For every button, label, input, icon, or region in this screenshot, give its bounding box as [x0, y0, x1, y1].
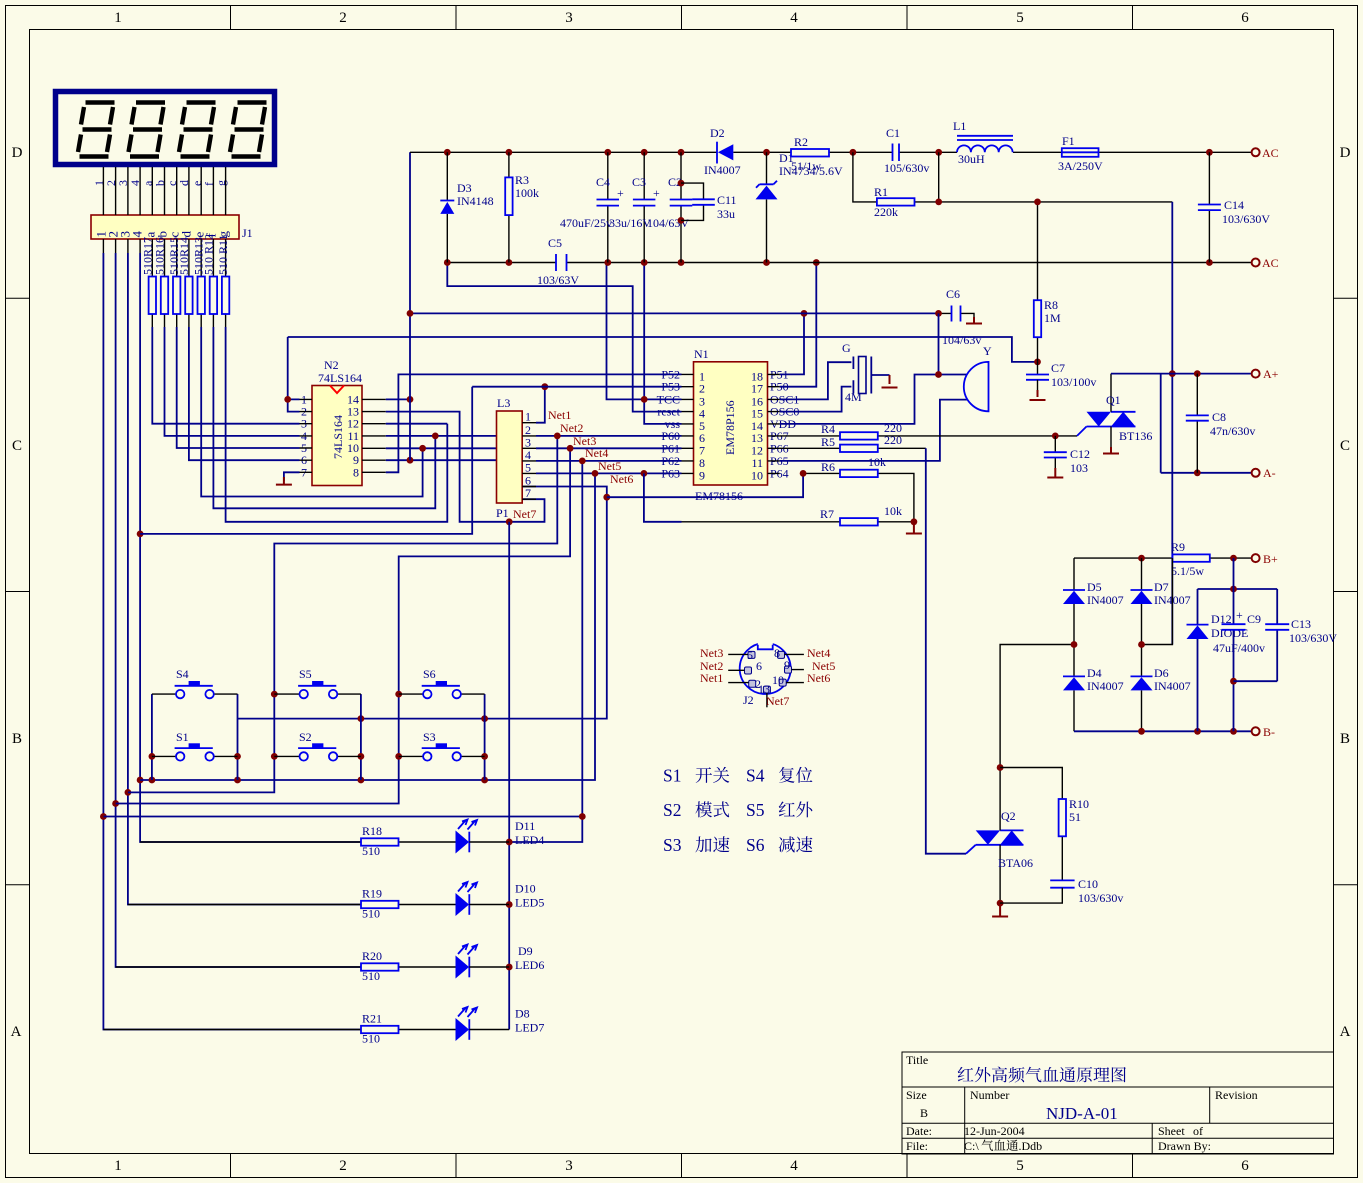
- switch S6: [399, 667, 485, 698]
- svg-text:D8: D8: [515, 1007, 530, 1021]
- svg-text:103/630V: 103/630V: [1289, 631, 1337, 645]
- wire L3 pin1 Net1 riser to P53 row: [536, 383, 548, 422]
- svg-text:C7: C7: [1051, 361, 1065, 375]
- buzzer Y: [964, 344, 992, 411]
- wire S5 S2 right column: [358, 694, 365, 780]
- resistor R3 100k: [505, 152, 539, 262]
- wire Q1 to A- row: [1161, 374, 1252, 477]
- svg-text:51/1w: 51/1w: [791, 159, 821, 173]
- resistor R9 5.1/5w: [1171, 540, 1210, 578]
- resistor R20 510: [116, 949, 456, 983]
- resistor R6 10k: [800, 455, 914, 522]
- wire rail1 left riser and C6 line: [407, 152, 942, 460]
- svg-text:B-: B-: [1263, 725, 1275, 739]
- 7-segment display DS1: [56, 92, 275, 165]
- svg-text:C8: C8: [1212, 410, 1226, 424]
- ground at R7: [906, 522, 922, 534]
- capacitor C14 103/630V: [1198, 152, 1270, 262]
- capacitor C4 470uF/25v: [560, 152, 624, 262]
- ground at N2 pin7: [276, 472, 300, 484]
- node Net4 at J2: [807, 646, 830, 660]
- resistor R18 510: [140, 824, 455, 858]
- svg-text:C:\: C:\: [964, 1139, 979, 1153]
- svg-text:1: 1: [525, 410, 531, 424]
- wire S4 S1 left column: [149, 694, 156, 780]
- svg-text:AC: AC: [1262, 146, 1279, 160]
- resistor R17 510: [141, 237, 157, 314]
- svg-text:IN4007: IN4007: [1154, 679, 1191, 693]
- wire bridge top row R9: [1074, 555, 1251, 562]
- svg-text:D9: D9: [518, 944, 533, 958]
- svg-text:R5: R5: [821, 435, 835, 449]
- svg-text:B+: B+: [1263, 552, 1278, 566]
- svg-text:D7: D7: [1154, 580, 1169, 594]
- svg-text:S6: S6: [746, 835, 765, 855]
- wire C6 to buzzer top and VDD: [780, 313, 967, 424]
- svg-text:R6: R6: [821, 460, 835, 474]
- node Net7 at J2: [766, 694, 789, 708]
- svg-text:of: of: [1193, 1124, 1203, 1138]
- svg-text:6: 6: [756, 659, 762, 673]
- svg-text:S4: S4: [176, 667, 189, 681]
- wire segment e bus to N2 pin10: [201, 327, 422, 497]
- svg-text:B: B: [1340, 731, 1350, 747]
- svg-text:470uF/25v: 470uF/25v: [560, 216, 612, 230]
- svg-text:100k: 100k: [515, 186, 539, 200]
- svg-text:7: 7: [525, 486, 531, 500]
- svg-text:Sheet: Sheet: [1158, 1124, 1185, 1138]
- svg-text:Size: Size: [906, 1088, 927, 1102]
- svg-text:R3: R3: [515, 173, 529, 187]
- svg-text:BTA06: BTA06: [998, 856, 1033, 870]
- wire bridge right mid to R9 riser: [1138, 558, 1172, 648]
- capacitor C3 33u/16V: [609, 152, 660, 262]
- node Net6 at J2: [807, 671, 830, 685]
- svg-text:G: G: [842, 341, 851, 355]
- svg-text:R7: R7: [820, 507, 834, 521]
- svg-text:N2: N2: [324, 358, 339, 372]
- svg-text:+: +: [1236, 608, 1243, 622]
- wire OSC0 to crystal: [780, 387, 852, 412]
- svg-text:30uH: 30uH: [958, 152, 985, 166]
- diode D7 IN4007: [1131, 558, 1191, 644]
- resistor R5 220: [780, 433, 926, 452]
- diode D6 IN4007: [1131, 645, 1191, 732]
- node Net3: [573, 434, 596, 448]
- svg-text:R19: R19: [362, 887, 382, 901]
- svg-text:51: 51: [1069, 810, 1081, 824]
- ground at Q2: [992, 903, 1008, 916]
- svg-text:S4: S4: [746, 766, 765, 786]
- wire segment f bus to N2 pin11: [213, 327, 435, 508]
- capacitor C9 47uF/400v: [1213, 558, 1265, 731]
- wire bus5 to S6 S3 left column: [116, 448, 570, 803]
- wire N2 pin8 to P52 row: [386, 374, 682, 472]
- svg-text:D5: D5: [1087, 580, 1102, 594]
- wire snubber top rail: [1198, 586, 1278, 593]
- node Net3 at J2: [700, 646, 723, 660]
- capacitor C13 103/630V: [1265, 589, 1337, 681]
- svg-text:C1: C1: [886, 126, 900, 140]
- svg-text:3: 3: [565, 10, 573, 26]
- svg-text:9: 9: [699, 468, 705, 482]
- wire P50 riser to rail2: [780, 259, 820, 387]
- svg-text:R21: R21: [362, 1012, 382, 1026]
- wire AC rail1 top: [410, 149, 1251, 156]
- wire N2 pin12 row: [386, 423, 448, 425]
- svg-text:Net4: Net4: [585, 446, 608, 460]
- wire B- row: [1074, 728, 1251, 735]
- svg-text:9: 9: [784, 658, 790, 672]
- capacitor C12 103: [1044, 436, 1090, 478]
- wire Net7 line to L3 pin7 and LED common: [506, 499, 545, 525]
- svg-text:47n/630v: 47n/630v: [1210, 424, 1255, 438]
- wire P63 row: [536, 470, 682, 477]
- svg-text:B: B: [12, 731, 22, 747]
- resistor R8 1M: [1034, 202, 1061, 362]
- svg-text:P63: P63: [661, 466, 680, 480]
- node Net6: [610, 472, 633, 486]
- IC N1 EM78P156: [657, 347, 800, 503]
- power port AC bottom: [1252, 256, 1279, 270]
- svg-text:Q1: Q1: [1106, 393, 1121, 407]
- diode D1 IN4734/5.6V zener: [756, 151, 843, 263]
- resistor R13 510: [192, 237, 206, 314]
- svg-text:C5: C5: [548, 236, 562, 250]
- svg-text:Net4: Net4: [807, 646, 830, 660]
- node Net4: [585, 446, 608, 460]
- wire segment b to N2 pin4: [165, 327, 300, 436]
- svg-text:Q2: Q2: [1001, 809, 1016, 823]
- svg-text:File:: File:: [906, 1139, 928, 1153]
- svg-text:+: +: [617, 186, 624, 200]
- svg-text:D: D: [1340, 145, 1351, 161]
- wire P63 riser to R7: [644, 473, 682, 521]
- node Net5 at J2: [812, 659, 835, 673]
- svg-text:C12: C12: [1070, 447, 1090, 461]
- connector J1: [91, 180, 253, 240]
- wire LED common column: [506, 522, 513, 1030]
- wire P60 row: [536, 433, 682, 440]
- svg-text:R18: R18: [362, 824, 382, 838]
- switch S3: [399, 730, 485, 761]
- wire N2 pin9 row to L3: [386, 457, 497, 464]
- wire bus4 to S5 S2 left column: [128, 436, 557, 793]
- svg-text:A: A: [11, 1024, 22, 1040]
- svg-text:IN4007: IN4007: [1087, 679, 1124, 693]
- svg-text:C3: C3: [632, 175, 646, 189]
- svg-text:F1: F1: [1062, 134, 1075, 148]
- svg-text:D: D: [12, 145, 23, 161]
- inductor L1 30uH: [953, 119, 1013, 166]
- svg-text:EM78156: EM78156: [695, 489, 743, 503]
- svg-text:1M: 1M: [1044, 311, 1061, 325]
- svg-text:Net7: Net7: [766, 694, 789, 708]
- capacitor C8 47n/630v: [1186, 374, 1256, 473]
- resistor R11 510: [216, 234, 230, 314]
- resistor R14 510: [177, 237, 192, 314]
- resistor R16 510: [153, 237, 169, 314]
- fuse F1 3A/250V: [1058, 134, 1103, 173]
- IC N2 74LS164: [300, 358, 386, 486]
- node Net2 at J2: [700, 659, 723, 673]
- wire P51 riser: [780, 310, 808, 374]
- capacitor C10 103/630v: [1000, 877, 1123, 905]
- wire reset path from rail2: [447, 263, 681, 412]
- svg-text:220: 220: [884, 433, 902, 447]
- svg-text:N1: N1: [694, 347, 709, 361]
- svg-text:S3: S3: [663, 835, 682, 855]
- svg-text:103/100v: 103/100v: [1051, 375, 1096, 389]
- power port AC top: [1252, 146, 1279, 160]
- svg-text:C13: C13: [1291, 617, 1311, 631]
- svg-text:4: 4: [790, 10, 798, 26]
- crystal G 4M: [842, 341, 898, 404]
- svg-text:6: 6: [1241, 10, 1249, 26]
- switch S1: [152, 730, 238, 761]
- switch S5: [274, 667, 361, 698]
- switch S4: [152, 667, 238, 698]
- svg-text:D11: D11: [515, 819, 535, 833]
- svg-text:.Ddb: .Ddb: [1019, 1139, 1043, 1153]
- svg-text:Net1: Net1: [700, 671, 723, 685]
- wire bus2 S-right columns to Net6 riser: [238, 487, 611, 722]
- svg-text:C: C: [12, 438, 22, 454]
- wire C9 to C13 bottom: [1234, 680, 1278, 682]
- wire 1 column to R21: [100, 253, 361, 1030]
- wire bus3 switches bottom: [140, 473, 595, 783]
- svg-text:5: 5: [747, 648, 753, 662]
- svg-text:S2: S2: [299, 730, 312, 744]
- wire 3 column to R19: [125, 253, 362, 905]
- wire R5 to Q2 gate: [926, 448, 966, 853]
- capacitor C7 103/100v: [1026, 361, 1096, 400]
- svg-text:5: 5: [1016, 1158, 1024, 1174]
- svg-text:105/630v: 105/630v: [884, 161, 929, 175]
- svg-text:D4: D4: [1087, 666, 1102, 680]
- connector L3 P1: [496, 396, 536, 520]
- diode D2 IN4007: [704, 126, 741, 177]
- svg-text:D2: D2: [710, 126, 725, 140]
- svg-text:C: C: [1340, 438, 1350, 454]
- svg-text:74LS164: 74LS164: [331, 415, 345, 459]
- wire P64 from Net6 riser: [607, 473, 803, 497]
- svg-text:103/630V: 103/630V: [1222, 212, 1270, 226]
- svg-text:47uF/400v: 47uF/400v: [1213, 641, 1265, 655]
- capacitor C5 103/63V: [537, 236, 579, 287]
- svg-text:S6: S6: [423, 667, 436, 681]
- power port B+: [1252, 552, 1278, 566]
- svg-text:C9: C9: [1247, 612, 1261, 626]
- wire S6 S3 right column: [481, 694, 488, 780]
- resistor R2 51/1w: [791, 135, 829, 173]
- svg-text:S2: S2: [663, 800, 681, 820]
- svg-text:Net1: Net1: [548, 408, 571, 422]
- resistor R4 220: [780, 421, 1056, 440]
- svg-text:8: 8: [353, 465, 359, 479]
- resistor R19 510: [128, 887, 456, 921]
- wire segment c to N2 pin5: [177, 327, 300, 448]
- svg-text:LED6: LED6: [515, 958, 544, 972]
- node Net2: [560, 421, 583, 435]
- svg-text:S3: S3: [423, 730, 436, 744]
- switch S2: [274, 730, 361, 761]
- svg-text:12-Jun-2004: 12-Jun-2004: [964, 1124, 1025, 1138]
- wire N2 pin11 row to L3: [386, 433, 497, 440]
- resistor R7 10k: [682, 504, 918, 526]
- wire 2 column to R20: [112, 253, 361, 967]
- node Net5: [598, 459, 621, 473]
- resistor R21 510: [103, 1012, 455, 1046]
- svg-text:2: 2: [339, 1158, 347, 1174]
- svg-text:R2: R2: [794, 135, 808, 149]
- svg-text:33u/16V: 33u/16V: [609, 216, 651, 230]
- power port B-: [1252, 725, 1275, 739]
- svg-text:C4: C4: [596, 175, 610, 189]
- svg-text:Net3: Net3: [700, 646, 723, 660]
- svg-text:Y: Y: [983, 344, 992, 358]
- wire segment g bus to N2 pin12: [226, 327, 448, 522]
- diode D5 IN4007: [1063, 558, 1124, 644]
- svg-text:510: 510: [362, 969, 380, 983]
- svg-text:C6: C6: [946, 287, 960, 301]
- diode D4 IN4007: [1063, 645, 1124, 732]
- svg-text:5.1/5w: 5.1/5w: [1171, 564, 1204, 578]
- resistor R15 510: [167, 237, 181, 314]
- resistor R1 220k: [853, 152, 939, 219]
- svg-text:R10: R10: [1069, 797, 1089, 811]
- triac Q1 BT136: [1077, 374, 1152, 449]
- svg-text:P1: P1: [496, 506, 509, 520]
- wire R4 to Q1 gate: [1052, 433, 1077, 440]
- svg-text:D10: D10: [515, 882, 536, 896]
- title block: [902, 1052, 1334, 1154]
- svg-text:510R14: 510R14: [177, 237, 191, 275]
- svg-text:R1: R1: [874, 185, 888, 199]
- wire display to J1 pins: [103, 167, 225, 327]
- svg-text:B: B: [920, 1106, 928, 1120]
- svg-text:1: 1: [114, 1158, 122, 1174]
- diode D12 DIODE: [1187, 589, 1249, 731]
- wire AC rail2 lower: [444, 259, 1251, 266]
- diode D3 IN4148: [440, 152, 493, 262]
- wire DC line to output vertical: [935, 199, 1175, 645]
- svg-text:J1: J1: [242, 226, 253, 240]
- svg-text:Revision: Revision: [1215, 1088, 1258, 1102]
- svg-text:AC: AC: [1262, 256, 1279, 270]
- wire P52 R8 line: [288, 337, 1041, 365]
- wire Net4 riser L3 pin4 to LED4 row: [509, 461, 585, 842]
- svg-text:NJD-A-01: NJD-A-01: [1046, 1104, 1118, 1123]
- svg-text:J2: J2: [743, 693, 754, 707]
- node Net1 at J2: [700, 671, 723, 685]
- svg-text:DIODE: DIODE: [1211, 626, 1248, 640]
- svg-text:4M: 4M: [845, 390, 862, 404]
- svg-text:S1: S1: [176, 730, 189, 744]
- svg-text:4: 4: [790, 1158, 798, 1174]
- svg-text:510: 510: [362, 1032, 380, 1046]
- svg-text:+: +: [653, 186, 660, 200]
- svg-text:S5: S5: [746, 800, 765, 820]
- svg-text:220k: 220k: [874, 205, 898, 219]
- svg-text:Net6: Net6: [610, 472, 633, 486]
- svg-text:Title: Title: [906, 1053, 928, 1067]
- wire P65 to buzzer bottom: [780, 400, 967, 461]
- LED D11 LED4: [456, 819, 545, 854]
- svg-text:5: 5: [525, 460, 531, 474]
- resistor R10 51: [1000, 768, 1089, 881]
- capacitor C11 33u: [681, 183, 737, 221]
- svg-text:Number: Number: [970, 1088, 1009, 1102]
- svg-text:5: 5: [1016, 10, 1024, 26]
- svg-text:2: 2: [339, 10, 347, 26]
- svg-text:C14: C14: [1224, 198, 1244, 212]
- svg-text:C10: C10: [1078, 877, 1098, 891]
- triac Q2 BTA06: [966, 764, 1033, 906]
- svg-text:LED5: LED5: [515, 896, 544, 910]
- svg-text:BT136: BT136: [1119, 429, 1152, 443]
- svg-text:IN4148: IN4148: [457, 194, 494, 208]
- svg-text:R4: R4: [821, 422, 835, 436]
- wire A+ row: [1111, 370, 1251, 377]
- wire TCC riser from rail2 to vss: [607, 263, 682, 424]
- svg-text:A+: A+: [1263, 367, 1279, 381]
- wire P53 row: [472, 386, 681, 388]
- node Net1: [548, 408, 571, 422]
- svg-text:103/630v: 103/630v: [1078, 891, 1123, 905]
- svg-text:104/63v: 104/63v: [942, 333, 981, 347]
- svg-text:LED7: LED7: [515, 1021, 544, 1035]
- svg-text:103: 103: [1070, 461, 1088, 475]
- wire N2 pins 1 2 riser: [284, 337, 299, 412]
- svg-text:Drawn By:: Drawn By:: [1158, 1139, 1211, 1153]
- svg-text:74LS164: 74LS164: [318, 371, 362, 385]
- svg-text:R8: R8: [1044, 298, 1058, 312]
- svg-text:LED4: LED4: [515, 833, 544, 847]
- wire S4 S1 right column: [234, 694, 241, 780]
- svg-text:10k: 10k: [884, 504, 902, 518]
- svg-text:510 R12: 510 R12: [202, 234, 216, 275]
- wire bridge left mid to Q2: [1000, 641, 1077, 767]
- svg-text:D6: D6: [1154, 666, 1169, 680]
- LED D10 LED5: [456, 882, 545, 917]
- svg-text:3: 3: [565, 1158, 573, 1174]
- svg-text:A: A: [1340, 1024, 1351, 1040]
- svg-text:10: 10: [751, 468, 763, 482]
- capacitor C6 104/63v: [939, 287, 983, 347]
- svg-text:6: 6: [1241, 1158, 1249, 1174]
- svg-text:510R16: 510R16: [153, 237, 167, 275]
- wire segment a to N2 pin3: [152, 327, 299, 424]
- wire N2 pin14 to rail riser: [386, 396, 414, 403]
- capacitor C2 104/63V: [647, 152, 692, 262]
- svg-text:10k: 10k: [868, 455, 886, 469]
- svg-text:R9: R9: [1171, 540, 1185, 554]
- svg-text:1: 1: [114, 10, 122, 26]
- wire bus6 to Net4 riser: [103, 816, 582, 818]
- svg-text:Date:: Date:: [906, 1124, 932, 1138]
- svg-text:10: 10: [772, 673, 784, 687]
- svg-text:510: 510: [362, 907, 380, 921]
- LED D8 LED7: [456, 1007, 545, 1042]
- power port A-: [1252, 466, 1276, 480]
- capacitor C1 105/630v: [884, 126, 929, 175]
- svg-text:L3: L3: [497, 396, 510, 410]
- svg-text:IN4007: IN4007: [704, 163, 741, 177]
- ground at Q1: [1103, 447, 1119, 454]
- connector J2: [728, 641, 804, 708]
- power port A+: [1252, 367, 1279, 381]
